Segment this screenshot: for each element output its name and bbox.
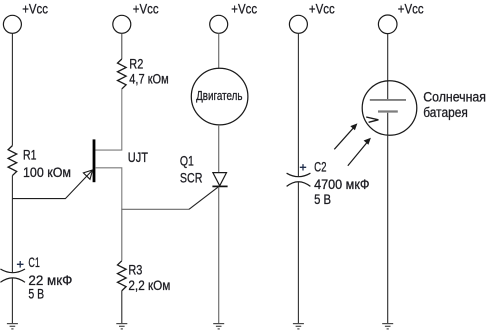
wire rail3 SCR cathode to ground (218, 187, 220, 323)
label R1 value (23, 147, 71, 180)
transistor UJT emitter arrowhead (83, 170, 92, 179)
solar battery inner arrow mark (366, 117, 378, 122)
thyristor Q1 SCR triangle (213, 173, 227, 186)
label solar battery (423, 89, 486, 120)
svg-text:батарея: батарея (423, 105, 468, 120)
power +Vcc supply 1 (3, 1, 48, 33)
svg-text:+Vcc: +Vcc (398, 1, 424, 16)
resistor R1 (8, 146, 17, 176)
wire rail3 motor to SCR anode (218, 125, 220, 173)
wire rail1 Vcc to R1 (11, 33, 13, 145)
light arrow upper (334, 123, 357, 149)
wire rail5 Vcc to solar battery (387, 34, 389, 99)
light arrow lower (348, 138, 371, 166)
label C2 value (314, 160, 369, 207)
wire rail1 R1 to C1 (11, 176, 13, 273)
power +Vcc supply 2 (113, 1, 159, 33)
svg-text:100 кОм: 100 кОм (23, 165, 71, 180)
svg-text:UJT: UJT (128, 150, 148, 165)
svg-text:+Vcc: +Vcc (22, 1, 48, 16)
label C1 value (28, 255, 72, 302)
ground rail4 (293, 324, 304, 329)
wire rail2 R2 to UJT base2 (95, 89, 122, 150)
capacitor C1 (0, 269, 25, 282)
motor M1 circle (191, 68, 248, 125)
label Q1 SCR (180, 153, 203, 185)
capacitor C2 (287, 173, 311, 186)
wire node R1-C1 junction to UJT emitter (12, 170, 92, 199)
svg-text:SCR: SCR (180, 170, 203, 185)
wire UJT base1 lead (95, 168, 122, 210)
wire rail2 R3 to ground (121, 291, 123, 324)
resistor R2 (118, 59, 127, 89)
resistor R3 (118, 261, 127, 291)
power +Vcc supply 3 (210, 1, 258, 33)
ground rail3 (213, 324, 224, 329)
label C1 plus (17, 261, 24, 268)
thyristor Q1 SCR cathode bar (212, 185, 227, 187)
wire rail3 Vcc to motor (218, 33, 220, 68)
svg-text:4,7 кОм: 4,7 кОм (129, 71, 168, 86)
label C2 plus (300, 164, 306, 170)
svg-text:Солнечная: Солнечная (423, 89, 486, 104)
svg-text:2,2 кОм: 2,2 кОм (128, 278, 170, 293)
svg-text:4700 мкФ: 4700 мкФ (314, 177, 369, 192)
svg-text:C1: C1 (28, 255, 40, 270)
wire SCR gate (189, 186, 219, 209)
solar battery short plate (378, 110, 398, 112)
svg-text:Двигатель: Двигатель (196, 88, 243, 103)
wire rail5 solar battery to ground (387, 113, 389, 324)
solar battery B1 circle (362, 81, 417, 136)
wire rail2 base1 to R3 junction to SCR gate (122, 209, 189, 260)
wire rail1 C1 to ground (11, 278, 13, 324)
svg-text:R2: R2 (129, 57, 143, 72)
solar battery long plate (370, 99, 406, 101)
ground rail5 (382, 324, 393, 329)
svg-text:5 В: 5 В (28, 286, 44, 301)
svg-text:R3: R3 (128, 262, 142, 277)
svg-text:R1: R1 (23, 147, 37, 162)
ground rail1 (7, 324, 18, 329)
power +Vcc supply 4 (289, 1, 335, 33)
transistor UJT bar (93, 139, 96, 182)
ground rail2 (116, 324, 127, 329)
svg-text:C2: C2 (314, 160, 326, 175)
svg-text:Q1: Q1 (180, 153, 194, 168)
wire rail4 C2 to ground (297, 182, 299, 324)
svg-text:+Vcc: +Vcc (231, 1, 257, 16)
label R2 value (129, 57, 168, 87)
wire rail4 Vcc to C2 (297, 33, 299, 176)
svg-text:+Vcc: +Vcc (309, 1, 335, 16)
power +Vcc supply 5 (378, 1, 423, 33)
svg-text:5 В: 5 В (314, 192, 331, 207)
wire rail2 Vcc to R2 (121, 33, 123, 59)
svg-text:+Vcc: +Vcc (133, 1, 159, 16)
label R3 value (128, 262, 170, 293)
